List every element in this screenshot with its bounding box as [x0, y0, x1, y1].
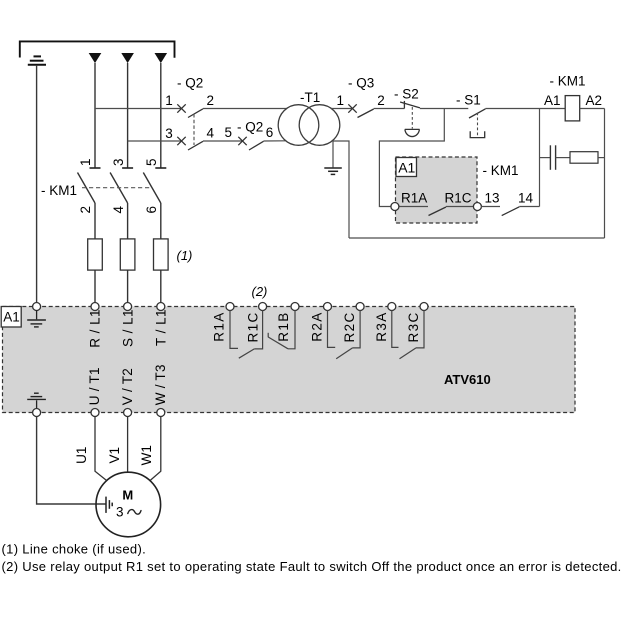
wire Q2 pin4 to pin5 — [203, 140, 243, 142]
wire choke1 to drive — [94, 270, 96, 303]
relay terminal circle R1C side — [473, 203, 481, 211]
phase L2 input arrow — [121, 53, 134, 63]
svg-text:ATV610: ATV610 — [444, 372, 491, 387]
line choke 3 — [154, 239, 169, 270]
KM1 pole 3-4 blade — [110, 173, 128, 204]
right rail wire — [604, 109, 606, 239]
S2 mushroom head — [405, 129, 420, 136]
svg-text:- S1: - S1 — [456, 93, 481, 108]
svg-text:R2C: R2C — [342, 311, 357, 342]
wire choke3 to drive — [160, 270, 162, 303]
svg-text:3: 3 — [116, 505, 124, 520]
emergency stop S2 contact — [400, 101, 420, 109]
relay terminal R2C — [356, 303, 364, 311]
internal relay contact R2 — [328, 310, 361, 359]
svg-text:- KM1: - KM1 — [483, 163, 519, 178]
contactor KM1 coil — [565, 96, 580, 121]
drive PE terminal top — [33, 303, 41, 311]
svg-text:R1C: R1C — [445, 190, 472, 205]
svg-text:- Q2: - Q2 — [177, 76, 203, 91]
wire PE to motor — [37, 416, 106, 504]
S2 actuator link — [411, 107, 413, 129]
motor ground symbol — [106, 497, 112, 513]
svg-text:3: 3 — [111, 159, 126, 167]
wire U1 to motor — [95, 416, 107, 480]
relay terminal R1A — [226, 303, 234, 311]
transformer T1 — [278, 105, 340, 146]
breaker Q2 pole 3-4 contact — [177, 137, 203, 150]
svg-text:U1: U1 — [74, 447, 89, 464]
line choke 2 — [120, 239, 135, 270]
branch wire to RC snubber and aux contact — [539, 109, 541, 207]
relay terminal R1B — [291, 303, 299, 311]
svg-text:5: 5 — [144, 159, 159, 167]
motor M1 circle — [96, 472, 161, 537]
wire phase 3 vertical — [160, 63, 162, 168]
svg-text:- KM1: - KM1 — [550, 73, 586, 88]
wire T1 secondary bottom — [333, 141, 350, 238]
bottom return wire — [349, 237, 605, 239]
relay terminal R3C — [420, 303, 428, 311]
line choke 1 — [88, 239, 103, 270]
relay contact R1A-R1C blade — [429, 207, 447, 216]
svg-text:13: 13 — [485, 191, 500, 206]
wire pole1 to choke — [94, 203, 96, 239]
wire V1 to motor — [127, 416, 129, 472]
svg-text:- KM1: - KM1 — [41, 183, 77, 198]
svg-text:R1C: R1C — [246, 311, 261, 342]
relay terminal R3A — [388, 303, 396, 311]
svg-text:3: 3 — [165, 126, 173, 141]
drive output terminal U/T1 — [91, 409, 99, 417]
drive internal ground bottom (inverted) — [27, 393, 46, 409]
earth symbol (mains PE, inverted) — [28, 56, 46, 64]
svg-text:4: 4 — [207, 126, 215, 141]
holding circuit branch from node after S2 — [379, 109, 444, 207]
snubber capacitor — [550, 145, 555, 170]
wire Q2-6 to T1 primary — [264, 140, 287, 142]
wire S1 to KM1 coil — [486, 108, 566, 110]
svg-text:W1: W1 — [139, 445, 154, 465]
wire pole3 to choke — [160, 203, 162, 239]
svg-text:M: M — [122, 487, 133, 502]
svg-text:V / T2: V / T2 — [120, 368, 135, 405]
phase L1 input arrow — [89, 53, 102, 63]
svg-text:(2) Use relay output R1 set to: (2) Use relay output R1 set to operating… — [2, 559, 622, 574]
drive PE terminal bottom — [33, 409, 41, 417]
svg-text:V1: V1 — [107, 447, 122, 464]
svg-text:R1A: R1A — [401, 190, 427, 205]
drive output terminal W/T3 — [157, 409, 165, 417]
KM1 auxiliary contact 13-14 blade — [502, 207, 520, 216]
wire T1 ground branch — [332, 141, 334, 167]
motor ~ symbol — [128, 510, 141, 515]
wire to snubber capacitor — [540, 157, 551, 159]
drive output terminal V/T2 — [124, 409, 132, 417]
svg-text:A1: A1 — [3, 309, 20, 324]
internal relay contact R3 — [392, 310, 424, 359]
wire aux 14 to branch — [519, 206, 539, 208]
ground symbol at T1 secondary — [324, 168, 342, 174]
svg-text:5: 5 — [224, 125, 232, 140]
relay terminal circle R1A side — [391, 203, 399, 211]
relay block A1 tag box — [396, 158, 417, 177]
wire T1 secondary top to Q3 — [332, 108, 353, 110]
svg-text:- S2: - S2 — [394, 87, 419, 102]
wire pole2 to choke — [127, 203, 129, 239]
internal relay contact R1 (changeover) — [230, 310, 295, 358]
start button S1 contact — [469, 109, 486, 118]
mains supply bracket — [20, 41, 175, 57]
svg-text:- Q3: - Q3 — [348, 76, 374, 91]
S1 pushbutton actuator — [470, 131, 485, 137]
wire choke2 to drive — [127, 270, 129, 303]
svg-text:(1) Line choke (if used).: (1) Line choke (if used). — [2, 542, 147, 557]
drive input terminal T/L1 — [157, 303, 165, 311]
svg-text:6: 6 — [144, 206, 159, 214]
breaker Q2 pole 5-6 contact — [238, 137, 263, 150]
svg-text:R3A: R3A — [374, 311, 389, 341]
svg-text:6: 6 — [266, 125, 274, 140]
wire R1C to aux contact 13 — [481, 206, 500, 208]
svg-text:-T1: -T1 — [300, 90, 320, 105]
wire W1 to motor — [150, 416, 161, 480]
svg-text:R1B: R1B — [276, 311, 291, 341]
svg-text:A1: A1 — [398, 159, 415, 175]
wire phase1 to Q2 pole 1 — [95, 108, 182, 110]
svg-text:U / T1: U / T1 — [87, 367, 102, 405]
breaker Q3 contact — [348, 104, 373, 117]
S1 actuator link — [477, 113, 479, 138]
phase L3 input arrow — [155, 53, 168, 63]
wire PE down to drive — [36, 66, 38, 303]
svg-text:R2A: R2A — [310, 311, 325, 341]
wire Q3 to S2 — [374, 108, 405, 110]
KM1 pole 5-6 blade — [143, 173, 161, 204]
svg-text:1: 1 — [336, 93, 344, 108]
relay contact R1A-R1C wires — [399, 206, 428, 208]
svg-text:S / L1: S / L1 — [120, 309, 135, 347]
wire Q2-2 to T1 primary — [203, 108, 287, 110]
relay terminal R2A — [324, 303, 332, 311]
svg-text:(1): (1) — [177, 248, 193, 263]
wire phase 2 vertical — [127, 63, 129, 168]
KM1 pole 5-6 fixed tick — [155, 167, 166, 169]
svg-text:1: 1 — [78, 159, 93, 167]
breaker Q2 pole 1-2 contact — [177, 104, 203, 117]
drive A1 tag box — [1, 307, 21, 328]
wire phase 1 vertical — [94, 63, 96, 168]
wire S2 to S1 — [420, 108, 468, 110]
Q2 mechanical link — [193, 114, 195, 145]
svg-text:R1A: R1A — [212, 311, 227, 341]
svg-text:2: 2 — [78, 206, 93, 214]
ATV610 drive block (gray dashed) — [3, 307, 576, 413]
wire coil A2 to right rail — [580, 108, 605, 110]
snubber resistor — [570, 152, 598, 164]
drive relay output block (gray dashed) — [396, 157, 478, 223]
svg-text:R / L1: R / L1 — [88, 309, 103, 348]
svg-text:2: 2 — [377, 93, 385, 108]
drive input terminal S/L1 — [124, 303, 132, 311]
relay terminal R1C — [259, 303, 267, 311]
drive internal ground top — [27, 310, 46, 327]
svg-text:W / T3: W / T3 — [153, 364, 168, 405]
svg-text:T / L1: T / L1 — [154, 309, 169, 346]
svg-text:4: 4 — [111, 206, 126, 214]
svg-text:14: 14 — [518, 191, 534, 206]
svg-text:A2: A2 — [586, 93, 603, 108]
svg-text:(2): (2) — [252, 284, 268, 299]
KM1 pole 1-2 blade — [78, 173, 96, 204]
wire phase2 to Q2 pole 3 — [128, 140, 182, 142]
svg-text:- Q2: - Q2 — [237, 120, 263, 135]
svg-text:1: 1 — [165, 93, 173, 108]
wire resistor to right rail — [598, 157, 605, 159]
drive input terminal R/L1 — [91, 303, 99, 311]
KM1 mechanical link — [82, 187, 152, 189]
svg-text:R3C: R3C — [406, 311, 421, 342]
KM1 pole 3-4 fixed tick — [122, 167, 133, 169]
wire capacitor to resistor — [556, 157, 570, 159]
svg-text:2: 2 — [207, 93, 215, 108]
svg-text:A1: A1 — [544, 93, 561, 108]
KM1 pole 1-2 fixed tick — [90, 167, 101, 169]
